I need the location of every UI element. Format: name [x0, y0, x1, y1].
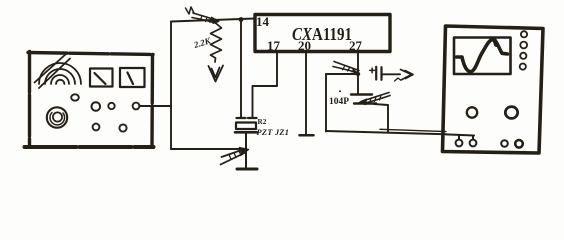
scope input terminal 1	[456, 140, 463, 147]
wire C1 to output arrow	[383, 73, 401, 75]
capacitor C1 polarized plus sign	[370, 68, 375, 73]
scope terminal 3	[501, 140, 508, 147]
sketch arrow at capacitor C2	[359, 93, 390, 105]
scope input terminal 2	[470, 140, 477, 147]
capacitor C2 104P bottom plate	[354, 102, 376, 104]
wire to pin 14	[171, 19, 255, 22]
wire scope input stubs	[446, 134, 474, 139]
svg-text:R2: R2	[258, 118, 267, 126]
scope knob column 1	[521, 31, 527, 37]
wire generator output to node	[140, 105, 172, 107]
paper background	[0, 0, 564, 187]
pin 20 label	[298, 38, 311, 53]
ink speck	[339, 90, 341, 92]
capacitor C2 104P top plate	[351, 93, 372, 95]
svg-text:20: 20	[298, 38, 311, 53]
svg-text:104P: 104P	[329, 97, 349, 107]
panel button	[119, 124, 126, 131]
sketch arrow pointing at R1 top	[186, 7, 220, 24]
svg-text:17: 17	[267, 38, 281, 53]
sine wave trace	[457, 39, 508, 71]
small oval indicator	[71, 94, 79, 100]
sketch arrow at pin 27 junction	[333, 62, 360, 75]
output arrow chevrons	[395, 70, 414, 82]
panel meter window 1	[90, 69, 113, 87]
scope knob column 4	[520, 64, 526, 70]
label PZT JZ1	[257, 128, 290, 137]
big tuning knob	[47, 107, 67, 127]
wire bottom bus to oscilloscope	[326, 131, 446, 134]
scope knob column 2	[520, 42, 527, 49]
wire pin 17 to piezo top	[253, 52, 278, 118]
panel meter window 2	[120, 68, 145, 87]
arrowhead below resistor	[209, 66, 224, 82]
junction node B at pin 27	[356, 72, 360, 76]
pin 17 label	[267, 38, 281, 53]
resistor R1 2.2K zigzag	[211, 20, 222, 63]
IC U1 CXA1191 box	[255, 15, 390, 52]
wire vertical bus	[170, 22, 172, 150]
wire piezo to ground	[245, 132, 247, 168]
meter needle strokes	[35, 54, 71, 89]
label R2	[258, 118, 267, 126]
analog meter dial arcs	[39, 63, 81, 84]
value label 104P	[329, 97, 349, 107]
sketch arrow at piezo ground junction	[221, 148, 249, 165]
piezo transducer R2 bottom plate	[235, 131, 257, 134]
wire junction B to capacitor C2	[357, 74, 359, 94]
piezo transducer R2 body	[236, 123, 256, 130]
pin 14 label	[256, 14, 270, 29]
capacitor C1 plates	[376, 67, 381, 80]
panel button	[93, 124, 100, 131]
wire left branch down	[325, 74, 327, 132]
scope knob mid right	[505, 107, 517, 119]
output jack	[133, 103, 140, 110]
wire C2 bottom drop	[374, 104, 388, 133]
piezo transducer R2 top electrode ticks	[237, 117, 257, 119]
pin 20 end bar	[300, 134, 314, 137]
wire junction B left	[326, 73, 358, 75]
panel button	[108, 103, 114, 109]
ground	[237, 168, 257, 171]
svg-text:14: 14	[256, 14, 270, 29]
scope knob mid left	[467, 107, 477, 117]
scope knob column 3	[520, 53, 526, 59]
wire bottom to piezo ground	[171, 148, 245, 150]
wire node A to piezo top	[240, 20, 242, 118]
wire pin 20 down	[305, 52, 307, 135]
svg-text:PZT JZ1: PZT JZ1	[257, 128, 290, 137]
pin 27 label	[349, 38, 363, 53]
wire sketch double line near scope	[380, 129, 446, 131]
svg-text:27: 27	[349, 38, 363, 53]
panel button	[92, 102, 101, 111]
wire pin 27 stub	[357, 52, 359, 74]
oscilloscope screen	[454, 38, 511, 75]
value label 2.2K	[192, 35, 213, 50]
oscilloscope cabinet	[443, 26, 544, 153]
scope terminal 4	[515, 140, 523, 148]
junction node A	[239, 17, 244, 22]
signal generator front panel box	[25, 52, 154, 148]
IC name CXA1191	[292, 24, 352, 44]
